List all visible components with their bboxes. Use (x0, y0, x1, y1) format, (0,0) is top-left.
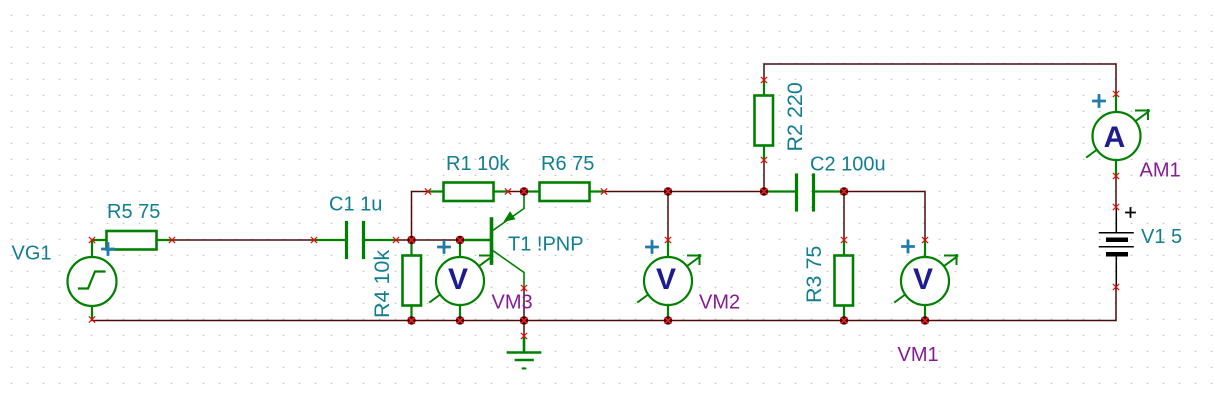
V1 plus polarity mark (black) (1126, 208, 1135, 217)
wire R5 right to C1 left (172, 239, 314, 241)
pin mark R6 right (601, 189, 606, 194)
svg-text:VM2: VM2 (699, 292, 740, 314)
junction node R3 bottom (840, 316, 848, 324)
ammeter AM1 (1087, 96, 1149, 176)
pin mark ground top (521, 333, 526, 338)
voltmeter VM3 (430, 240, 492, 321)
wire bottom ground rail: battery bottom to VG1 bottom (92, 288, 1116, 321)
transistor T1 (PNP) (461, 192, 524, 289)
resistor R5 (92, 231, 172, 250)
pin mark C1 right (393, 237, 398, 242)
wire C1 right to node B (396, 239, 412, 241)
svg-text:V: V (656, 263, 676, 296)
pin mark R2 top (761, 77, 766, 82)
capacitor C1 (314, 223, 396, 258)
junction node VM3 bottom (456, 316, 464, 324)
junction node VM1 bottom (921, 316, 929, 324)
wire transistor collector to bottom rail (523, 288, 525, 321)
pin mark VM1 top (922, 237, 927, 242)
voltage generator VG1 (68, 240, 117, 319)
svg-text:VM3: VM3 (492, 292, 533, 314)
junction node VM2 top rail (664, 187, 672, 195)
resistor R1 (428, 183, 508, 202)
pin mark R5 right (169, 237, 174, 242)
junction node C2/R3/VM1 (840, 187, 848, 195)
pin mark C1 left (311, 237, 316, 242)
resistor R2 (755, 80, 774, 160)
pin mark battery bottom (1113, 284, 1118, 289)
svg-text:T1 !PNP: T1 !PNP (508, 234, 584, 256)
junction node R4 bottom (407, 316, 415, 324)
junction node VM2 bottom (664, 316, 672, 324)
resistor R4 (403, 240, 422, 321)
wire node B to transistor-base node (412, 239, 461, 241)
svg-text:A: A (1104, 121, 1126, 154)
svg-text:V: V (448, 263, 468, 296)
svg-text:C1 1u: C1 1u (329, 194, 382, 216)
VG1 plus polarity mark (103, 244, 114, 255)
svg-text:C2 100u: C2 100u (810, 154, 886, 176)
pin mark AM1 top (1113, 91, 1118, 96)
voltmeter VM2 (638, 240, 700, 321)
junction node ground rail (520, 316, 528, 324)
resistor R6 (524, 183, 604, 202)
battery V1 (1100, 208, 1134, 288)
svg-text:R4 10k: R4 10k (370, 250, 394, 318)
wire node B up to R1 left (412, 192, 429, 241)
svg-text:AM1: AM1 (1140, 160, 1181, 182)
wire C2 node up to R2 bottom (763, 160, 765, 192)
wire AM1 bottom to battery top (1115, 176, 1117, 207)
svg-text:R5 75: R5 75 (107, 201, 160, 223)
capacitor C2 (764, 175, 844, 210)
pin mark battery top (1113, 204, 1118, 209)
wire R1 right to emitter node (508, 191, 524, 193)
pin mark AM1 bottom (1113, 173, 1118, 178)
AM1 plus polarity mark (1094, 96, 1105, 107)
junction node base (VM3 top) (456, 236, 464, 244)
voltmeter VM1 (895, 240, 957, 321)
VM2 plus polarity mark (647, 242, 658, 253)
svg-text:R2 220: R2 220 (783, 82, 807, 151)
wire C2 right node to VM1 plus terminal (844, 192, 925, 241)
svg-text:R1 10k: R1 10k (446, 153, 510, 175)
wire R6 right to C2 left node (604, 191, 764, 193)
pin mark T1 collector (521, 285, 526, 290)
pin mark VG1 bottom (89, 317, 94, 322)
wire C2 right node down to R3 top (843, 192, 845, 241)
wire R2 top to AM1 plus (top rail) (764, 64, 1116, 96)
junction node emitter (R1/R6) (520, 187, 528, 195)
pin mark R2 bottom (761, 157, 766, 162)
svg-text:R6 75: R6 75 (541, 153, 594, 175)
T1 emitter arrow (points to base, PNP) (504, 211, 516, 222)
junction node B (C1/R4/R1) (407, 236, 415, 244)
pin mark R1 left (425, 189, 430, 194)
resistor R3 (835, 240, 854, 321)
VM1 plus polarity mark (903, 241, 914, 252)
VM3 plus polarity mark (439, 242, 450, 253)
pin mark R1 right (505, 189, 510, 194)
wire down to VM2 plus terminal (667, 192, 669, 241)
ground symbol (508, 338, 540, 369)
wire bottom rail down to ground symbol (523, 321, 525, 337)
pin mark VM2 top (665, 237, 670, 242)
svg-text:VG1: VG1 (12, 243, 52, 265)
MAIN CIRCUIT (12, 64, 1183, 369)
pin mark R3 top (841, 237, 846, 242)
pin mark VG1 top / R5 left (89, 237, 94, 242)
svg-text:VM1: VM1 (898, 344, 939, 366)
junction node R2/C2 (760, 187, 768, 195)
svg-text:V1 5: V1 5 (1141, 226, 1182, 248)
svg-text:R3 75: R3 75 (802, 246, 826, 303)
svg-text:V: V (913, 263, 933, 296)
